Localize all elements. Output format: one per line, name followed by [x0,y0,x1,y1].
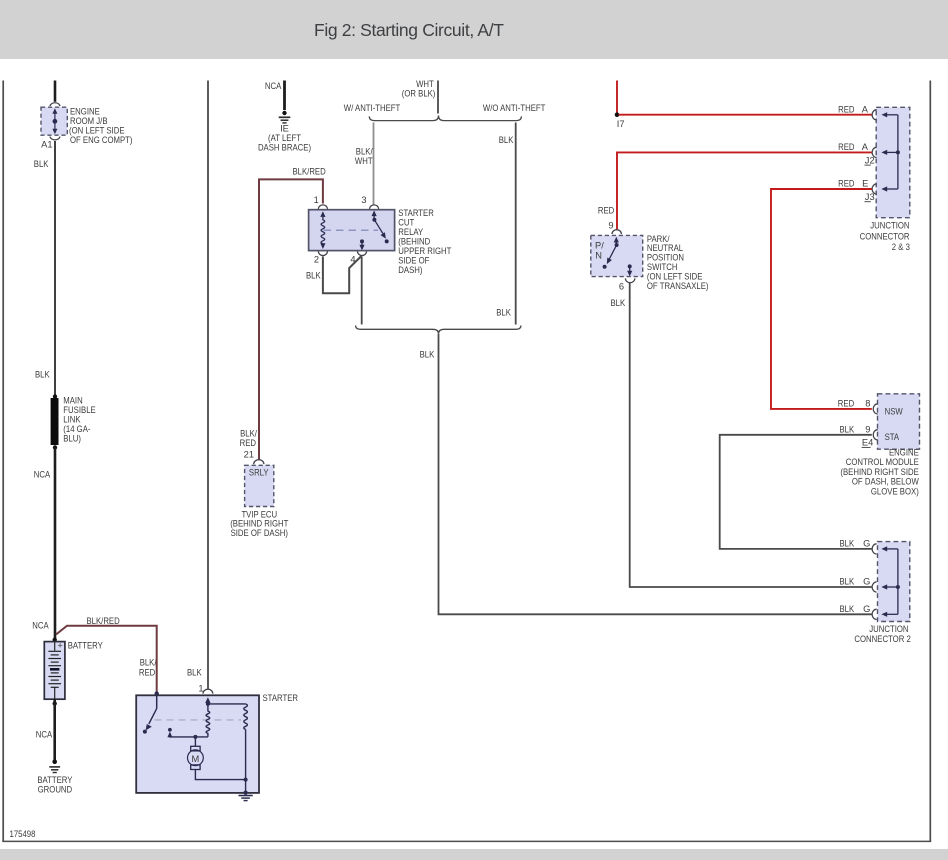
frame right border [929,81,931,842]
node battery negative [53,701,57,705]
wire battery to ground [53,699,56,761]
svg-text:BATTERY: BATTERY [37,775,72,785]
wire junction to motor [194,737,196,746]
svg-text:9: 9 [608,221,613,231]
svg-text:FUSIBLE: FUSIBLE [63,405,95,415]
node battery positive [53,638,57,642]
svg-text:OF ENG COMPT): OF ENG COMPT) [70,135,133,145]
relay dashed actuation line [324,229,379,231]
svg-text:(OR BLK): (OR BLK) [402,88,436,98]
wire BLK/RED relay pin1 to TVIP ECU [259,179,323,459]
connector arc JC2 pin G row1 [872,544,877,554]
starter node pin1 [206,702,210,706]
connector arc relay pin 2 [318,251,327,255]
svg-text:W/ ANTI-THEFT: W/ ANTI-THEFT [344,103,401,113]
node fusible link top [53,394,57,398]
starter motor junction node [193,735,197,739]
relay coil [320,211,325,217]
svg-text:(14 GA-: (14 GA- [63,424,90,434]
svg-text:A: A [862,142,869,152]
svg-text:STA: STA [885,432,900,442]
P/N switch internal [603,237,633,277]
frame bottom border [2,840,931,842]
starter motor M [191,746,200,751]
footer bar [0,849,948,860]
svg-text:UPPER RIGHT: UPPER RIGHT [398,246,451,256]
svg-text:LINK: LINK [63,415,81,425]
svg-text:RED: RED [838,104,855,114]
wire relay pin4 down [361,256,363,324]
svg-text:SRLY: SRLY [249,468,269,478]
svg-text:I7: I7 [617,119,625,129]
svg-text:SIDE OF: SIDE OF [398,256,429,266]
starter switch contact node [143,730,147,734]
svg-text:BLK: BLK [611,298,626,308]
wire BLK ECM pin 9 to junction connector 2 [720,435,872,549]
node starter switch feed [155,691,159,695]
svg-text:BLK: BLK [35,370,50,380]
connector arc A1 top [50,103,60,106]
connector arc JC23 pin A (J2) [872,147,876,157]
svg-text:J2: J2 [865,155,875,165]
svg-text:CUT: CUT [398,218,414,228]
connector arc relay pin 3 [370,205,379,209]
svg-text:RED: RED [598,206,615,216]
brace anti-theft merge [356,326,521,334]
svg-text:RELAY: RELAY [398,227,423,237]
svg-text:BLU): BLU) [63,434,81,444]
svg-text:NCA: NCA [36,730,53,740]
frame left border [2,81,4,842]
relay pin 4 contact [360,239,364,243]
TVIP ECU box SRLY [245,465,274,506]
svg-text:9: 9 [865,424,870,434]
park/neutral position switch box [591,235,643,276]
wire BLK/WHT to relay pin 3 [373,123,375,206]
svg-text:BLK: BLK [840,577,855,587]
svg-text:A: A [862,104,869,114]
wire NCA to IE ground [283,81,286,111]
svg-text:RED: RED [240,438,257,448]
svg-text:CONNECTOR 2: CONNECTOR 2 [854,634,910,644]
svg-text:P/: P/ [595,240,604,250]
battery ground symbol [49,760,60,773]
brace anti-theft split [369,116,521,121]
svg-text:W/O ANTI-THEFT: W/O ANTI-THEFT [483,103,546,113]
svg-text:21: 21 [244,450,254,460]
connector arc P/N pin 6 [625,278,634,282]
svg-text:NCA: NCA [32,621,49,631]
junction connector 2+3 internal bus [881,112,900,191]
svg-text:GLOVE BOX): GLOVE BOX) [871,486,919,496]
svg-text:CONNECTOR: CONNECTOR [860,232,910,242]
svg-text:N: N [595,251,602,261]
wire motor to ground bus [195,770,245,780]
svg-text:BLK/: BLK/ [356,147,373,157]
svg-text:BLK: BLK [34,159,49,169]
wire to hold-in coil [208,703,246,705]
svg-text:SIDE OF DASH): SIDE OF DASH) [231,528,288,538]
starter ground symbol [239,791,253,801]
wire RED J3 to ECM pin 8 [771,189,872,409]
svg-text:DASH BRACE): DASH BRACE) [258,143,311,153]
svg-text:WHT: WHT [416,79,434,89]
battery [44,642,65,700]
starter box [136,695,259,793]
svg-text:E: E [862,179,868,189]
connector arc P/N pin 9 [612,230,621,234]
svg-text:BLK/: BLK/ [140,658,157,668]
svg-text:STARTER: STARTER [263,693,299,703]
svg-text:NSW: NSW [885,407,903,417]
starter dashed actuation line [155,719,242,721]
svg-text:RED: RED [838,398,855,408]
IE ground symbol [279,111,291,123]
svg-text:J3: J3 [865,192,875,202]
svg-text:RED: RED [139,667,156,677]
connector arc A1 bottom [50,137,60,140]
svg-text:M: M [192,754,200,764]
svg-text:BLK: BLK [496,308,511,318]
svg-text:RED: RED [838,142,855,152]
svg-text:G: G [863,539,870,549]
svg-text:2 & 3: 2 & 3 [892,242,910,252]
svg-text:NCA: NCA [34,470,51,480]
wire BLK P/N pin 6 to junction connector 2 [630,282,872,587]
starter contact to motor wire [168,728,172,732]
svg-text:GROUND: GROUND [38,785,73,795]
svg-text:BLK: BLK [840,604,855,614]
starter cut relay box [309,210,395,251]
header bar [0,0,948,59]
relay switch [372,210,377,216]
connector arc relay pin 1 [318,205,327,209]
junction connector 2 and 3 box [876,107,910,217]
svg-text:2: 2 [314,255,319,265]
svg-text:A1: A1 [41,140,52,150]
svg-text:3: 3 [361,195,366,205]
svg-text:8: 8 [865,398,870,408]
wire RED junction J2 to P/N switch pin 9 [617,152,872,230]
relay internal circuit [320,210,388,250]
svg-text:6: 6 [619,282,624,292]
svg-text:ENGINE: ENGINE [70,107,100,117]
svg-text:ROOM J/B: ROOM J/B [70,116,108,126]
node fusible link bottom [53,445,57,449]
svg-text:ENGINE: ENGINE [889,448,919,458]
svg-text:E4: E4 [862,438,873,448]
connector arc starter pin 1 [203,689,213,693]
svg-text:1: 1 [314,195,319,205]
starter internal circuit [143,695,248,793]
starter switch lever [156,695,158,709]
connector arc JC2 pin G row3 [872,609,877,619]
svg-text:BLK: BLK [187,667,202,677]
svg-text:BLK: BLK [840,424,855,434]
svg-text:OF DASH, BELOW: OF DASH, BELOW [852,477,919,487]
svg-text:BLK/: BLK/ [240,429,257,439]
engine room J/B box [41,107,67,135]
wire fusible link to battery [54,448,57,640]
connector arc relay pin 4 [357,251,366,255]
connector arc JC2 pin G row2 [872,582,876,592]
wire BLK/RED battery to starter [56,626,157,693]
connector arc JC23 pin A [872,110,877,120]
svg-text:IE: IE [280,124,289,134]
starter ground bus node [244,778,248,782]
svg-text:(ON LEFT SIDE: (ON LEFT SIDE [69,126,125,136]
engine control module box [878,394,920,449]
svg-text:STARTER: STARTER [398,208,434,218]
svg-text:175498: 175498 [10,829,36,839]
junction connector 2 box [878,542,910,622]
svg-text:MAIN: MAIN [63,396,82,406]
wire WHT ignition [437,81,439,114]
svg-text:JUNCTION: JUNCTION [870,220,909,230]
svg-text:(AT LEFT: (AT LEFT [268,133,301,143]
node I7 [615,112,620,117]
svg-text:G: G [863,604,870,614]
svg-text:WHT: WHT [355,156,373,166]
title [314,20,504,41]
wire A1 to fusible link [54,141,56,397]
svg-text:BLK: BLK [840,539,855,549]
svg-text:BLK: BLK [499,135,514,145]
svg-text:JUNCTION: JUNCTION [869,624,908,634]
wire hold-in coil to ground [245,730,247,793]
svg-text:BLK: BLK [420,350,435,360]
svg-text:NCA: NCA [265,81,282,91]
connector arc ECM pin 8 NSW [873,404,878,414]
svg-text:RED: RED [838,179,855,189]
wire RED ignition feed [616,81,618,114]
svg-text:(BEHIND RIGHT SIDE: (BEHIND RIGHT SIDE [840,467,918,477]
svg-text:CONTROL MODULE: CONTROL MODULE [846,457,919,467]
main fusible link [51,398,59,445]
wire battery feed top [54,81,57,102]
wire RED I7 to junction connector pin A [619,114,872,116]
wire BLK merged to junction connector 2 [439,334,872,614]
starter pull-in coil [206,704,210,737]
wire relay pin2 to pin4 [323,256,362,293]
junction connector 2 internal bus [881,546,900,617]
svg-text:OF TRANSAXLE): OF TRANSAXLE) [647,281,709,291]
svg-text:BLK/RED: BLK/RED [293,167,326,177]
wire BLK w/o anti-theft branch [515,123,517,325]
starter hold-in coil [244,704,248,730]
svg-text:BLK/RED: BLK/RED [87,616,120,626]
starter pin1 arrow up [207,701,209,706]
svg-text:BLK: BLK [306,271,321,281]
engine room J/B internal link A1 [52,108,57,134]
connector arc JC23 pin E (J3) [872,184,877,194]
svg-text:DASH): DASH) [398,265,422,275]
wire BLK ignition feed (long vertical) [207,81,209,689]
svg-text:(BEHIND: (BEHIND [398,237,430,247]
connector arc ECM pin 9 STA [873,430,878,440]
svg-text:BATTERY: BATTERY [68,641,103,651]
svg-text:G: G [863,577,870,587]
svg-text:+: + [57,641,62,651]
connector arc TVIP pin 21 [254,460,264,464]
